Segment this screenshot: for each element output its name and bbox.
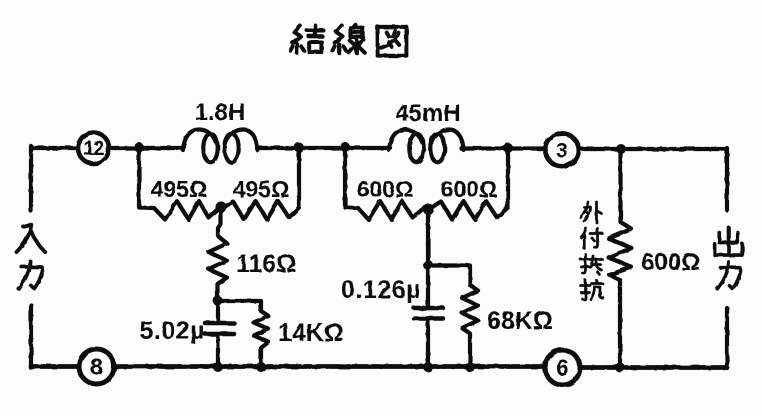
wire top rail: L1 to L2 [257,146,390,150]
ext label kanji fu [581,229,603,249]
inductor L1 1.8H [183,130,216,151]
resistor R 600 right [431,201,508,220]
svg-text:495Ω: 495Ω [151,176,208,202]
wire branch up-right of 600 pair [506,148,510,207]
capacitor C 5.02u plates [205,321,234,326]
terminal circle 3 [546,134,579,167]
wire node to capacitor 5.02 [216,300,220,321]
svg-text:68KΩ: 68KΩ [487,307,553,335]
wire top rail: terminal 3 to right corner [579,147,727,151]
terminal circle 12 [78,133,109,164]
node dot bottom 68K [465,362,475,372]
wire bottom rail: terminal 8 to terminal 6 [115,364,546,369]
ext label kanji kou [581,280,604,300]
wire external resistor bottom [618,280,622,367]
terminal circle 6 [545,350,580,385]
svg-text:116Ω: 116Ω [236,250,296,278]
svg-text:0.126µ: 0.126µ [341,276,421,304]
ext label kanji tei [581,255,603,275]
svg-text:600Ω: 600Ω [641,249,700,276]
wire right column lower [725,308,729,368]
wire top rail: L2 to terminal 3 [461,146,545,150]
capacitor C 0.126u plates [414,306,443,311]
resistor 14K [254,311,269,367]
node dot B1 [294,143,304,153]
svg-text:600Ω: 600Ω [441,176,498,202]
node dot ext top [616,144,626,154]
node dot center tap 495 [216,202,227,213]
resistor 68K [462,285,478,367]
svg-text:6: 6 [556,355,569,381]
wire bottom rail left segment [31,364,79,369]
wire right column upper [725,148,729,210]
svg-text:600Ω: 600Ω [357,176,414,202]
wire capacitor to bottom rail [426,321,430,368]
left label kanji chikara [18,261,42,289]
svg-text:14KΩ: 14KΩ [278,319,344,347]
node dot B2 [503,143,513,153]
node dot bottom cap1 [213,362,223,372]
inductor L2 45mH [389,130,422,151]
node dot A2 [340,142,350,152]
wire top rail left segment [31,146,78,150]
resistor 600 external [609,222,632,280]
left label kanji nyuu (input) [17,225,46,252]
svg-text:45mH: 45mH [395,100,460,127]
wire bottom rail: terminal 6 to right corner [581,365,728,370]
resistor R 600 left [345,201,424,220]
resistor R 495 right [223,201,299,220]
node dot bottom cap2 [423,362,433,372]
wire node to capacitor 0.126 [426,265,430,306]
wire branch up-right of 495 pair [297,148,301,207]
svg-text:8: 8 [90,354,103,380]
right label kanji shutsu (output) [715,227,743,255]
wire center tap of 495 pair down [218,207,221,236]
svg-text:5.02µ: 5.02µ [139,317,205,345]
wire capacitor to bottom rail [216,336,220,367]
resistor 116 ohm [209,236,228,300]
title kanji ketsu [290,25,323,52]
node dot 0.126 junction [423,260,433,270]
wire top rail: terminal12 to inductor L1 [110,146,184,150]
right label kanji chikara [717,262,741,289]
terminal circle 8 [79,349,114,384]
resistor R 495 left [139,201,219,220]
ext label kanji gai [581,202,603,223]
node dot 116-cap junction [213,296,223,306]
node dot bottom 14K [256,362,266,372]
wire branch down-left of L2 [343,148,347,208]
wire left column upper [29,146,33,211]
wire external resistor top [618,149,622,222]
title kanji zu [378,27,407,56]
wire branch down-left of L1 [137,148,141,207]
wire left column lower [29,305,33,368]
svg-text:3: 3 [556,140,568,163]
title kanji sen [332,25,364,53]
svg-text:495Ω: 495Ω [233,176,290,202]
wire center tap of 600 pair down [426,209,430,265]
wire node to resistor 14K [218,301,261,311]
node dot center tap 600 [423,204,434,215]
node dot ext bottom [615,363,625,373]
svg-text:1.8H: 1.8H [195,99,246,126]
node dot A1 [134,143,144,153]
wire node to resistor 68K [428,266,470,286]
svg-text:12: 12 [83,138,104,160]
